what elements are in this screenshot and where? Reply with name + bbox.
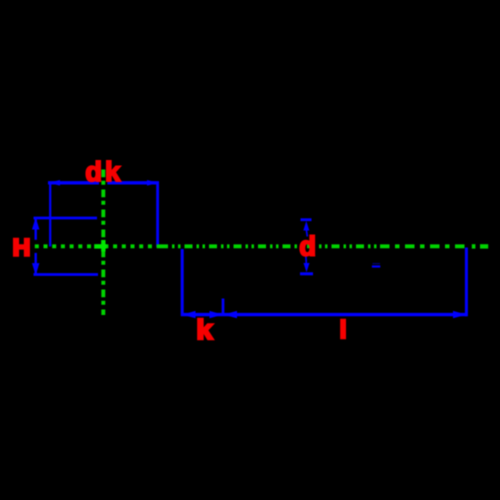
k-l dimension line: [181, 313, 467, 316]
vertical centerline (head axis): [101, 170, 105, 316]
svg-text:l: l: [340, 316, 347, 344]
k-l shared tick: [222, 299, 225, 314]
H dimension line lower part: [35, 253, 37, 276]
dk extension line right: [156, 183, 159, 247]
d bottom leader: [305, 257, 307, 264]
centerline last dash: [480, 244, 488, 248]
dk extension line left: [49, 183, 51, 247]
centerline dot near end: [472, 244, 476, 248]
svg-text:dk: dk: [85, 156, 123, 187]
thread tick upper faint line: [373, 263, 381, 265]
horizontal centerline right part: [160, 244, 380, 248]
svg-text:H: H: [13, 235, 31, 262]
H bottom extension line: [34, 273, 99, 276]
l arrow right: [453, 311, 467, 318]
horizontal centerline (axis): [35, 244, 160, 248]
l arrow left: [223, 311, 237, 318]
l extension line right: [465, 248, 468, 317]
k arrow right: [210, 311, 223, 318]
H arrow up: [32, 217, 39, 229]
dk arrow right: [147, 180, 159, 186]
svg-text:k: k: [196, 314, 213, 345]
dk dimension line right part: [107, 181, 159, 184]
centerline cross highlight: [94, 244, 107, 248]
H arrow down: [32, 263, 39, 275]
svg-text:d: d: [299, 231, 316, 262]
d top leader: [306, 230, 307, 237]
d bottom bar: [300, 272, 313, 275]
H top extension line: [34, 217, 98, 220]
dk arrow left: [48, 180, 60, 186]
thread tick: [372, 265, 380, 267]
horizontal centerline far right part: [380, 244, 466, 248]
H dimension line upper part: [35, 217, 37, 240]
dk dimension line left part: [48, 181, 99, 184]
k extension line left: [181, 249, 184, 316]
d top bar: [301, 218, 312, 221]
d arrow down: [304, 263, 310, 272]
d arrow up: [303, 221, 309, 231]
k arrow left: [182, 311, 195, 318]
